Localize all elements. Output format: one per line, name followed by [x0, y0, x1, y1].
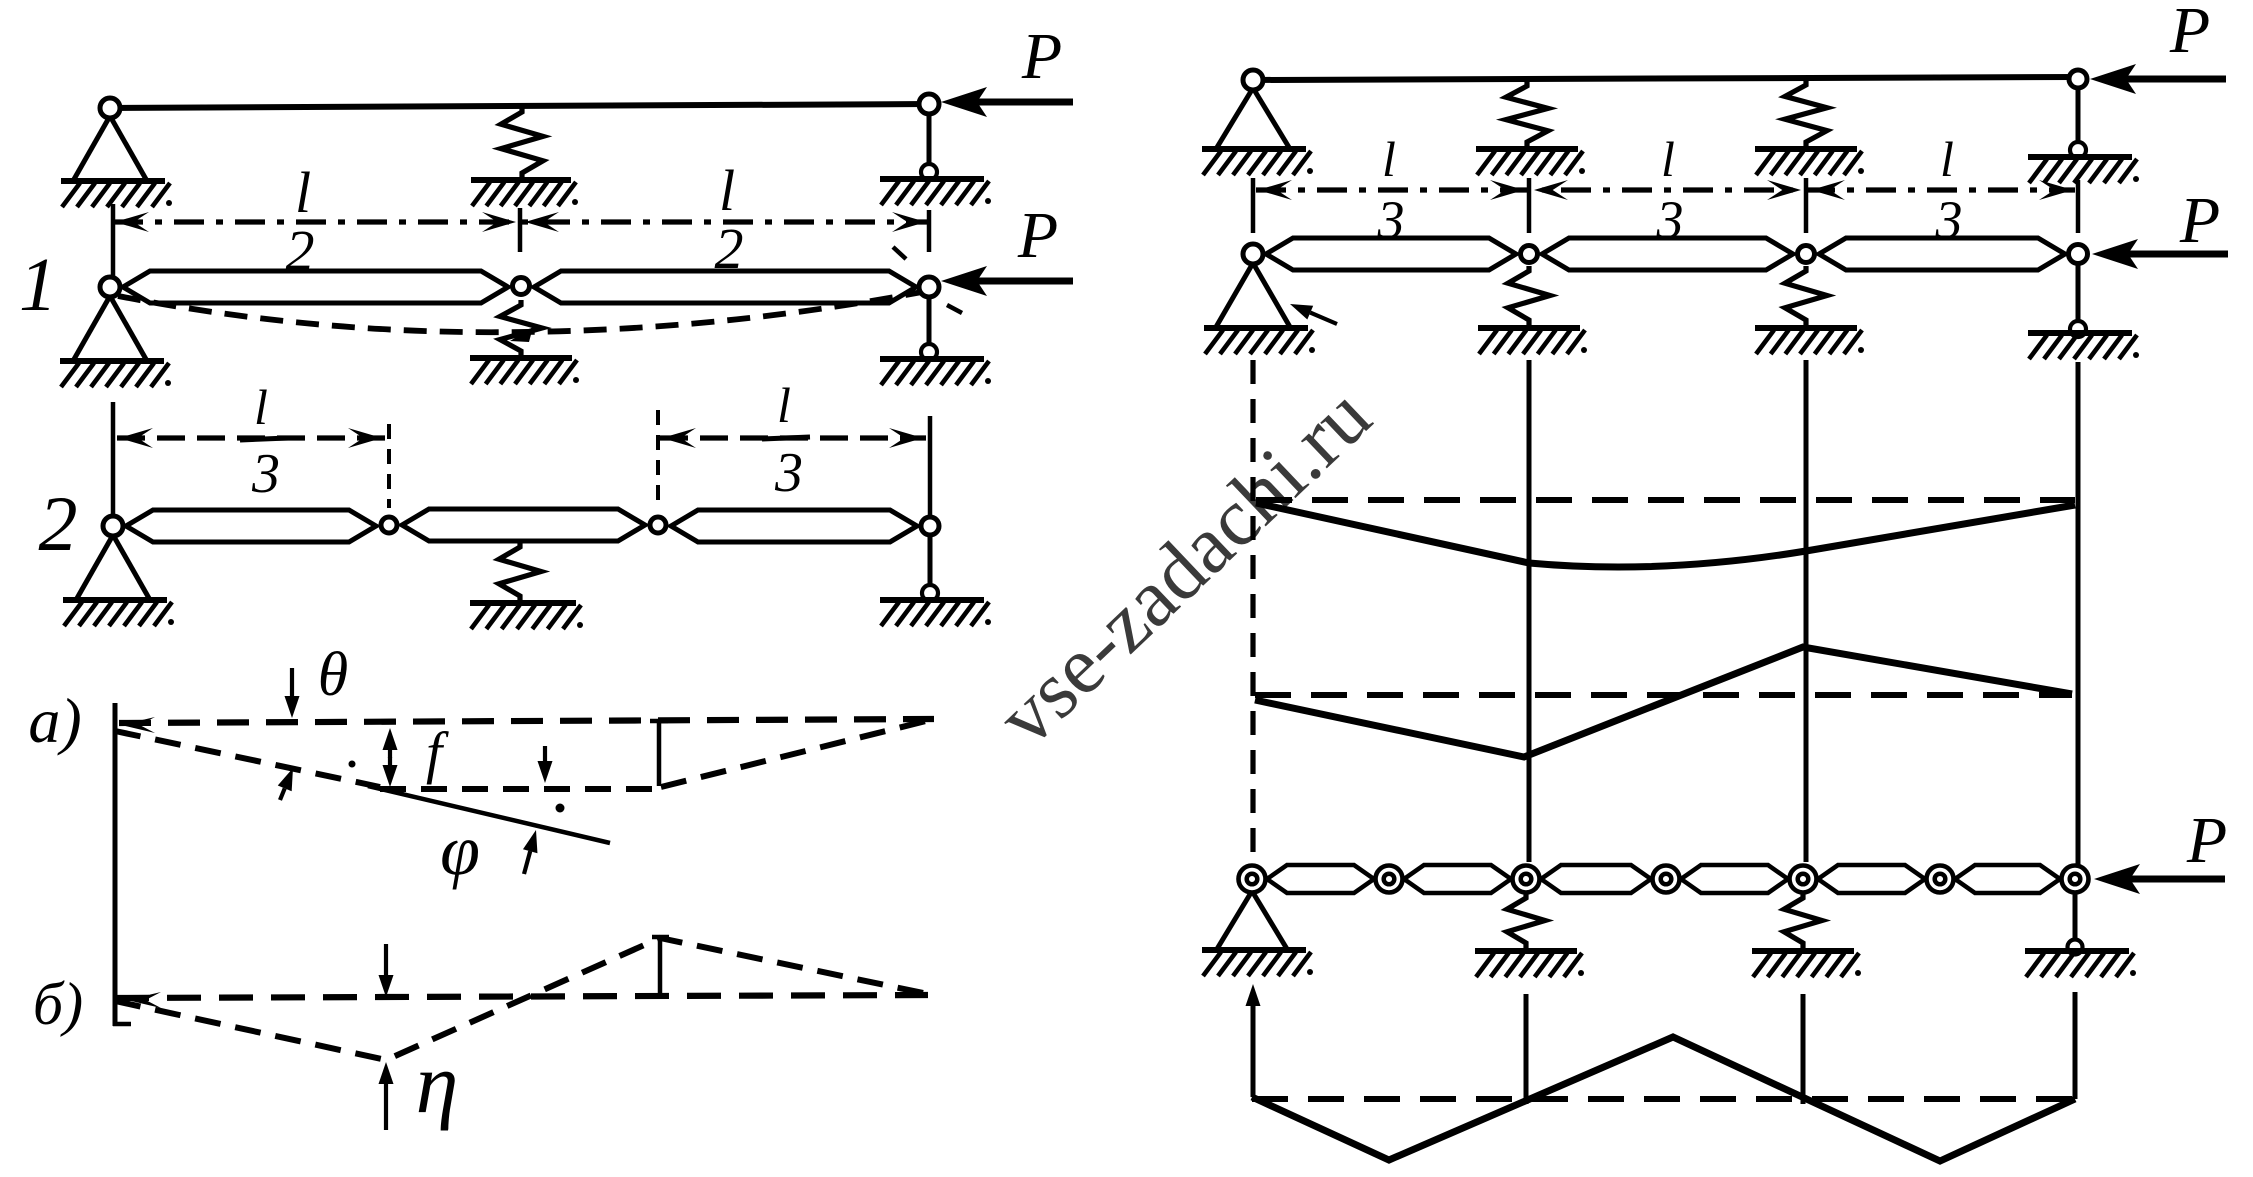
- svg-text:P: P: [2169, 0, 2210, 67]
- svg-text:P: P: [1017, 199, 1058, 272]
- svg-text:θ: θ: [318, 641, 348, 709]
- svg-text:P: P: [2186, 804, 2227, 877]
- svg-text:l: l: [719, 158, 735, 223]
- svg-text:η: η: [416, 1035, 459, 1131]
- svg-text:3: 3: [774, 442, 803, 504]
- svg-text:P: P: [1021, 20, 1062, 93]
- svg-text:l: l: [1661, 131, 1675, 187]
- svg-text:l: l: [254, 379, 268, 435]
- svg-text:P: P: [2179, 184, 2220, 257]
- svg-text:1: 1: [19, 243, 57, 327]
- svg-text:a): a): [28, 685, 81, 756]
- svg-text:2: 2: [39, 480, 78, 567]
- svg-text:б): б): [33, 971, 83, 1037]
- svg-text:φ: φ: [440, 810, 480, 890]
- svg-text:l: l: [1382, 131, 1396, 187]
- svg-text:3: 3: [251, 443, 280, 505]
- svg-text:l: l: [777, 377, 791, 433]
- svg-text:3: 3: [1935, 190, 1963, 250]
- svg-text:3: 3: [1656, 190, 1684, 250]
- svg-text:l: l: [1940, 131, 1954, 187]
- svg-text:l: l: [295, 160, 311, 225]
- svg-text:3: 3: [1377, 190, 1405, 250]
